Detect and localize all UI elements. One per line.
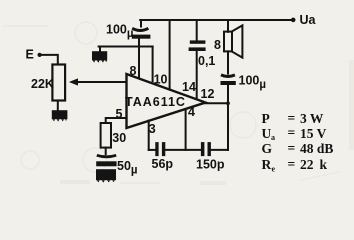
svg-text:3: 3 [149,122,156,136]
svg-text:12: 12 [201,87,215,101]
wire: input from pot wiper to triangle [77,81,127,83]
potentiometer R1 22K body [52,65,65,101]
svg-text:=: = [288,156,296,171]
svg-text:R: R [262,157,272,172]
wire: pin 5 to R2 [106,118,127,123]
capacitor C1 100u plates [132,28,151,38]
svg-text:8: 8 [130,64,137,78]
svg-text:=: = [288,110,296,125]
svg-text:48 dB: 48 dB [300,141,333,156]
wire: rail stub to speaker [227,20,229,32]
wire: supply pin vertical (rail to triangle top edge) [169,20,171,89]
svg-text:150p: 150p [196,157,225,171]
capacitor C5 50u plates [96,155,116,166]
op-amp U1 TAA611C triangle [127,74,206,128]
svg-text:30: 30 [112,131,126,145]
ground (below C5) [96,169,116,182]
svg-text:=: = [288,125,296,140]
potentiometer R1 wiper arrowhead [69,78,78,85]
wire: pin 3 vertical [148,121,150,150]
svg-text:P: P [262,111,270,126]
speaker LS 8 ohm [224,25,242,57]
node: output junction dot [226,101,230,105]
svg-text:56p: 56p [152,157,174,171]
svg-text:5: 5 [116,107,123,121]
capacitor C4 100u plates [221,75,236,85]
svg-text:22K: 22K [31,77,54,91]
wire: pin 3 to 56p [149,149,156,151]
faint ghosting noise [2,22,340,183]
wire: output pin 12 to node [206,102,229,104]
svg-text:0,1: 0,1 [198,54,215,68]
svg-text:Ua: Ua [300,13,317,27]
svg-text:8: 8 [214,38,221,52]
wire: rail stub down to C1 [140,20,142,27]
svg-text:4: 4 [188,105,195,119]
wire: E terminal to pot top [42,55,58,65]
capacitor C2 0,1 plates [189,40,206,51]
svg-text:3 W: 3 W [300,111,324,126]
paper background [0,0,354,188]
wire: pin 4 vertical [185,110,187,150]
ground (near pins 8/10) [92,47,107,63]
svg-text:22: 22 [300,157,314,172]
svg-text:G: G [262,141,273,156]
node: Ua terminal dot [291,18,296,23]
svg-text:TAA611C: TAA611C [125,95,186,109]
wire: pot bottom to ground [57,101,59,110]
svg-text:k: k [320,157,328,172]
svg-text:10: 10 [154,73,168,87]
wire: pin 14 vertical (C2 bottom to triangle top edge) [196,51,198,99]
svg-text:=: = [288,141,296,156]
wire: 56p to 150p [165,149,201,151]
wire: pin 10 vertical [152,47,154,82]
capacitor C6 56p plates [155,142,165,156]
node: E terminal dot [38,53,42,57]
svg-text:14: 14 [182,80,196,94]
wire: +supply top rail [140,19,293,21]
wire: R2 to C5 [105,148,107,155]
svg-text:E: E [26,48,34,62]
svg-text:15 V: 15 V [300,126,327,141]
wire: C4 down through output node to 150p [227,85,229,150]
wire: ground bus to pins 8 and 10 [99,46,153,48]
ground (below pot) [52,110,68,121]
wire: pin 8 vertical (C1 bottom to triangle top edge) [138,39,140,78]
svg-text:U: U [262,126,272,141]
resistor R2 30 body [101,123,111,148]
wire: speaker to C4 [227,51,229,73]
svg-text:e: e [272,164,276,173]
capacitor C7 150p plates [201,142,211,156]
wire: rail stub down to C2 0,1 [196,20,198,41]
wire: 150p to output node [211,149,228,151]
